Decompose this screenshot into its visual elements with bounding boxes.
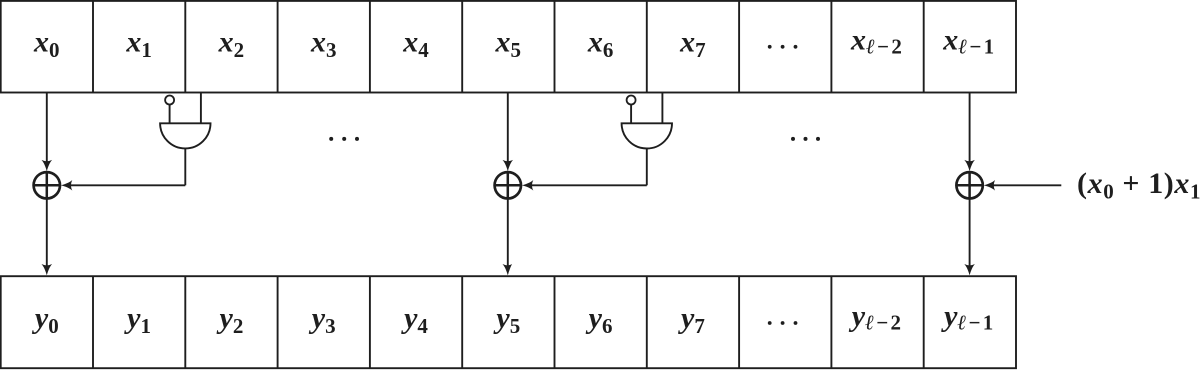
arrowhead into XOR2 top — [503, 160, 514, 171]
top register outline — [1, 1, 1016, 93]
svg-text:x3: x3 — [310, 26, 337, 63]
svg-text:y4: y4 — [401, 302, 428, 339]
top register cell divider x6/x7 — [646, 1, 648, 93]
top register cell divider x1/x2 — [184, 1, 186, 93]
wire gate2 output horizontal to XOR2 — [530, 184, 647, 186]
arrowhead into XOR3 top — [964, 160, 975, 171]
ellipsis between gate2 and XOR3 — [791, 137, 820, 141]
top register cell divider x4/x5 — [461, 1, 463, 93]
gate2 bubble stem — [630, 105, 632, 124]
svg-text:xℓ−1: xℓ−1 — [942, 23, 996, 58]
XOR1 circle — [34, 172, 60, 198]
top register cell divider x2/x3 — [277, 1, 279, 93]
gate2 x7 input wire — [661, 93, 663, 124]
arrowhead into XOR3 right — [984, 180, 995, 191]
bottom register cell divider yl-2/yl-1 — [923, 276, 925, 368]
svg-text:x1: x1 — [125, 26, 152, 63]
bottom register cell divider y3/y4 — [369, 276, 371, 368]
svg-text:x4: x4 — [402, 26, 429, 63]
gate2 NOT bubble on x6 input — [627, 96, 636, 105]
svg-text:y5: y5 — [493, 302, 520, 339]
XOR3 cross — [956, 172, 982, 198]
bottom register cell divider y4/y5 — [461, 276, 463, 368]
bottom register cell divider dots/yl-2 — [830, 276, 832, 368]
arrowhead into XOR2 right — [522, 180, 533, 191]
gate2 output wire down — [646, 149, 648, 186]
top register cell divider xl-2/xl-1 — [923, 1, 925, 93]
svg-text:yℓ−2: yℓ−2 — [849, 299, 903, 334]
XOR1 cross — [34, 172, 60, 198]
bottom register cell divider y2/y3 — [277, 276, 279, 368]
svg-text:x0: x0 — [33, 26, 60, 63]
wire XOR1 down to y0 — [46, 199, 48, 267]
wire XOR3 down to yl-1 — [969, 199, 971, 267]
svg-text:x7: x7 — [679, 26, 706, 63]
ellipsis in bottom register cell 9 — [768, 321, 798, 325]
wire gate1 output horizontal to XOR1 — [69, 184, 185, 186]
svg-text:y0: y0 — [32, 302, 59, 339]
top register cell divider x3/x4 — [369, 1, 371, 93]
bottom register cell divider y6/y7 — [646, 276, 648, 368]
XOR2 cross — [495, 172, 521, 198]
bottom register cell divider y1/y2 — [184, 276, 186, 368]
svg-text:y3: y3 — [309, 302, 336, 339]
ellipsis in top register cell 9 — [768, 45, 798, 49]
wire from label to XOR3 — [992, 184, 1061, 186]
arrowhead into XOR1 top — [42, 160, 53, 171]
gate1 NOT bubble on x1 input — [165, 96, 174, 105]
svg-text:y6: y6 — [586, 302, 613, 339]
XOR3 circle — [956, 172, 982, 198]
svg-text:xℓ−2: xℓ−2 — [850, 23, 904, 58]
gate1 bubble stem — [169, 105, 171, 124]
AND gate2 body — [622, 123, 672, 148]
bottom register cell divider y0/y1 — [92, 276, 94, 368]
arrowhead into XOR1 right — [61, 180, 72, 191]
svg-text:y1: y1 — [124, 302, 151, 339]
gate1 x2 input wire — [200, 93, 202, 124]
svg-text:(x0 + 1)x1: (x0 + 1)x1 — [1077, 167, 1200, 204]
AND gate1 body — [160, 123, 210, 148]
XOR2 circle — [495, 172, 521, 198]
svg-text:y2: y2 — [216, 302, 243, 339]
svg-text:x2: x2 — [218, 26, 245, 63]
ellipsis between gate1 and XOR2 — [329, 137, 359, 141]
bottom register outline — [1, 276, 1016, 368]
top register cell divider x5/x6 — [554, 1, 556, 93]
svg-text:yℓ−1: yℓ−1 — [941, 299, 995, 334]
top register cell divider x7/dots — [738, 1, 740, 93]
bottom register cell divider y5/y6 — [554, 276, 556, 368]
wire XOR2 down to y5 — [507, 199, 509, 267]
arrowhead into y5 — [503, 264, 513, 275]
svg-text:x5: x5 — [495, 26, 522, 63]
top register cell divider x0/x1 — [92, 1, 94, 93]
wire x5 down to XOR2 — [507, 93, 509, 163]
svg-text:x6: x6 — [587, 26, 614, 63]
bottom register cell divider y7/dots — [738, 276, 740, 368]
arrowhead into yl-1 — [964, 264, 975, 275]
wire x0 down to XOR1 — [46, 93, 48, 163]
svg-text:y7: y7 — [678, 302, 705, 339]
arrowhead into y0 — [42, 264, 53, 275]
gate1 output wire down then left — [184, 149, 186, 186]
top register cell divider dots/xl-2 — [830, 1, 832, 93]
wire xl-1 down to XOR3 — [969, 93, 971, 163]
